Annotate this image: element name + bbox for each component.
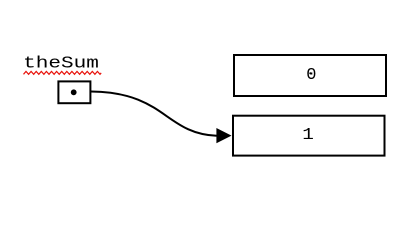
svg-text:theSum: theSum bbox=[23, 53, 99, 73]
curved arrow wire from reference box to value box 1 bbox=[91, 92, 217, 136]
svg-text:0: 0 bbox=[306, 66, 316, 85]
spell-check red squiggle under theSum bbox=[24, 71, 102, 74]
value box containing 0 bbox=[234, 55, 386, 96]
svg-text:1: 1 bbox=[302, 126, 314, 145]
reference (pointer) box of theSum bbox=[58, 81, 90, 103]
arrowhead at value box 1 bbox=[216, 128, 231, 143]
pointer dot inside reference box bbox=[71, 89, 77, 95]
value box containing 1 bbox=[233, 116, 385, 156]
dot of the dotted zero bbox=[309, 72, 311, 74]
